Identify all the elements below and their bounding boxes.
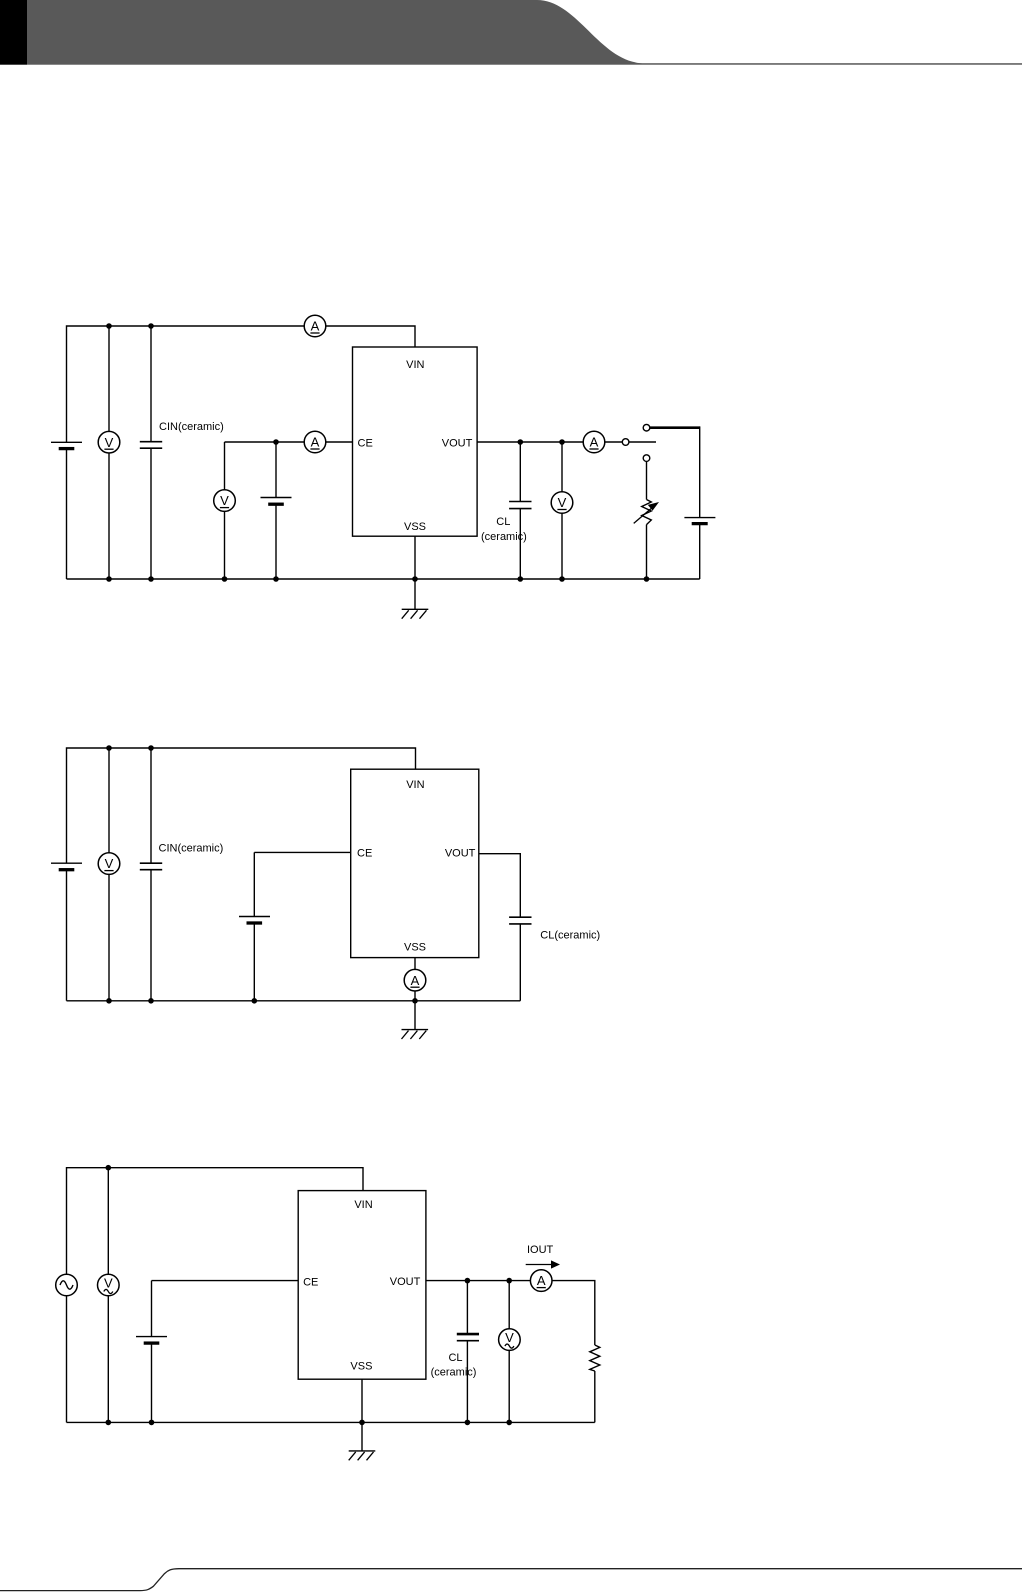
label: CIN(ceramic) (159, 421, 224, 433)
IC U1 regulator (351, 769, 479, 957)
node: bottom rail CL junction (518, 576, 524, 582)
capacitor CIN (140, 442, 162, 449)
node: bottom rail VSS junction (412, 576, 418, 582)
node: VOUT CL junction (465, 1278, 471, 1284)
ammeter: input current A (304, 315, 326, 337)
voltmeter: input V (AC) (98, 1274, 120, 1296)
label: (ceramic) (481, 531, 527, 543)
svg-text:A: A (311, 435, 320, 450)
header band (0, 0, 1022, 65)
pin label VOUT (442, 438, 473, 450)
wire: CL to bottom rail (519, 924, 521, 1001)
pin label VOUT (390, 1276, 421, 1288)
pin label CE (358, 438, 373, 450)
ammeter: output current A (583, 431, 605, 453)
svg-text:VSS: VSS (404, 942, 426, 954)
svg-text:VIN: VIN (406, 779, 424, 791)
switch SW1 pole contact (622, 439, 629, 446)
pin label VIN (354, 1199, 372, 1211)
svg-text:CE: CE (358, 438, 373, 450)
IC U1 regulator (298, 1191, 426, 1380)
svg-text:A: A (537, 1273, 546, 1288)
pin label VSS (350, 1360, 372, 1372)
svg-text:CE: CE (303, 1277, 318, 1289)
wire: input battery negative to bottom rail (66, 870, 68, 1001)
wire: load battery branch (699, 426, 701, 579)
svg-text:(ceramic): (ceramic) (481, 531, 527, 543)
node: bottom rail CIN junction (148, 998, 154, 1004)
svg-text:(ceramic): (ceramic) (431, 1366, 477, 1378)
ground (402, 1030, 429, 1039)
svg-text:CIN(ceramic): CIN(ceramic) (159, 421, 224, 433)
node: bottom rail VSS junction (359, 1420, 365, 1426)
wire: VOUT to CL (479, 854, 521, 918)
wire: input supply top rail to VIN (67, 748, 416, 863)
node: top rail CIN junction (148, 323, 154, 329)
wire: CE battery branch (253, 852, 255, 1000)
wire: CE voltmeter branch (224, 442, 226, 579)
switch SW1 throw contact lower (643, 455, 650, 462)
capacitor CL (509, 502, 531, 509)
wire: input supply top rail to VIN (67, 1168, 364, 1275)
wire: VOUT output (477, 441, 622, 443)
battery: CE source (239, 917, 270, 924)
svg-text:VIN: VIN (354, 1199, 372, 1211)
wire: input battery negative to bottom rail (66, 449, 68, 579)
ammeter: IOUT A (530, 1270, 552, 1292)
pin label VSS (404, 521, 426, 533)
wire: thick link to load battery (650, 426, 700, 429)
svg-text:VOUT: VOUT (442, 438, 473, 450)
header left black block (0, 0, 27, 65)
svg-text:CL: CL (448, 1352, 462, 1364)
battery: input source (51, 863, 82, 870)
battery: CE source (261, 498, 292, 505)
label: IOUT (527, 1244, 554, 1256)
label: CL (496, 516, 510, 528)
pin label VSS (404, 942, 426, 954)
node: bottom rail voltmeter junction (106, 576, 112, 582)
label: CIN(ceramic) (159, 843, 224, 855)
wire: CE battery branch (151, 1281, 153, 1423)
pin label CE (303, 1277, 318, 1289)
svg-text:CIN(ceramic): CIN(ceramic) (159, 843, 224, 855)
label: CL (448, 1352, 462, 1364)
wire: VSS to bottom rail (414, 958, 416, 1001)
pin label VIN (406, 779, 424, 791)
svg-text:A: A (590, 435, 599, 450)
wire: output voltmeter branch (508, 1281, 510, 1423)
svg-text:V: V (105, 856, 114, 871)
node: CE wire battery junction (273, 439, 279, 445)
battery: input source (51, 442, 82, 448)
battery: load source (684, 518, 715, 524)
svg-text:V: V (558, 495, 567, 510)
pin label VIN (406, 359, 424, 371)
IOUT arrow (526, 1260, 560, 1268)
AC source (56, 1274, 78, 1296)
node: top rail voltmeter junction (106, 745, 112, 751)
node: VOUT CL junction (518, 439, 524, 445)
svg-text:CL(ceramic): CL(ceramic) (540, 929, 600, 941)
svg-text:VOUT: VOUT (445, 847, 476, 859)
svg-text:CL: CL (496, 516, 510, 528)
wire: CIN branch (150, 748, 152, 1001)
wire: ground stem (414, 1001, 416, 1030)
label: CL(ceramic) (540, 929, 600, 941)
wire: input voltmeter branch (108, 748, 110, 1001)
wire: bottom ground rail (67, 578, 700, 580)
wire: CL branch (519, 442, 521, 579)
node: VOUT voltmeter junction (506, 1278, 512, 1284)
wire: input voltmeter branch (108, 326, 110, 579)
wire: CE input (225, 441, 353, 443)
battery: CE source (136, 1337, 167, 1344)
voltmeter: output V (551, 492, 573, 514)
svg-text:VSS: VSS (350, 1360, 372, 1372)
pin label CE (357, 847, 372, 859)
node: bottom rail VSS junction (412, 998, 418, 1004)
voltmeter: input V (98, 431, 120, 453)
wire: bottom ground rail (67, 1000, 521, 1002)
node: top rail voltmeter junction (106, 323, 112, 329)
wire: CL branch (466, 1281, 468, 1423)
wire: CE input (254, 851, 350, 853)
node: bottom rail rheostat junction (644, 576, 650, 582)
wire: bottom ground rail (67, 1421, 595, 1423)
wire: VSS to bottom rail and ground stem (361, 1379, 363, 1451)
header rule (0, 63, 1022, 64)
ammeter: VSS current A (404, 969, 426, 991)
svg-text:V: V (105, 435, 114, 450)
svg-text:VIN: VIN (406, 359, 424, 371)
node: bottom rail CIN junction (148, 576, 154, 582)
wire: CE input (152, 1280, 299, 1282)
node: top rail voltmeter junction (106, 1165, 112, 1171)
wire: input voltmeter branch (107, 1168, 109, 1423)
footer rule (0, 1569, 1022, 1591)
voltmeter: output V (AC) (499, 1329, 521, 1351)
resistor RL load (590, 1345, 600, 1371)
wire: VSS to ground (414, 536, 416, 609)
wire: CIN branch (150, 326, 152, 579)
ammeter: CE current A (304, 431, 326, 453)
capacitor CIN (140, 863, 162, 870)
node: bottom rail CE voltmeter junction (222, 576, 228, 582)
voltmeter: input V (98, 853, 120, 875)
ground (349, 1451, 376, 1460)
svg-text:V: V (505, 1330, 514, 1345)
svg-text:V: V (104, 1276, 113, 1291)
node: bottom rail CE battery junction (149, 1420, 155, 1426)
svg-text:A: A (311, 319, 320, 334)
node: top rail CIN junction (148, 745, 154, 751)
svg-text:CE: CE (357, 847, 372, 859)
node: bottom rail CL junction (465, 1420, 471, 1426)
node: bottom rail CE battery junction (273, 576, 279, 582)
wire: VOUT output (426, 1281, 595, 1345)
label: (ceramic) (431, 1366, 477, 1378)
svg-text:IOUT: IOUT (527, 1244, 554, 1256)
ground (402, 609, 429, 618)
node: VOUT voltmeter junction (559, 439, 565, 445)
svg-text:VOUT: VOUT (390, 1276, 421, 1288)
node: bottom rail CE battery junction (252, 998, 258, 1004)
rheostat RL (variable load) (634, 500, 659, 525)
wire: input supply top rail to VIN (67, 326, 416, 442)
IC U1 regulator (353, 347, 478, 536)
wire: AC source to bottom rail (66, 1296, 68, 1423)
wire: CE battery branch (275, 442, 277, 579)
wire: rheostat branch (646, 461, 648, 579)
node: bottom rail output voltmeter junction (559, 576, 565, 582)
svg-text:VSS: VSS (404, 521, 426, 533)
voltmeter: CE V (214, 490, 236, 512)
node: bottom rail voltmeter junction (106, 1420, 112, 1426)
capacitor CL (509, 917, 531, 924)
pin label VOUT (445, 847, 476, 859)
svg-text:A: A (411, 973, 420, 988)
wire: output voltmeter branch (561, 442, 563, 579)
switch SW1 blade (629, 441, 656, 443)
switch SW1 throw contact upper (643, 424, 650, 431)
wire: load resistor to bottom rail (594, 1371, 596, 1422)
capacitor CL (457, 1334, 479, 1341)
node: bottom rail output voltmeter junction (506, 1420, 512, 1426)
svg-text:V: V (220, 493, 229, 508)
node: bottom rail voltmeter junction (106, 998, 112, 1004)
